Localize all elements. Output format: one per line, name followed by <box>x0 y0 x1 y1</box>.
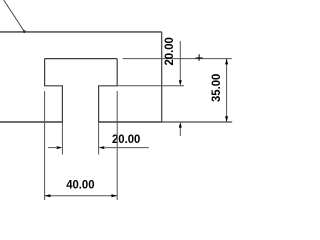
svg-text:20.00: 20.00 <box>112 133 141 146</box>
T-slot top edge <box>45 58 118 60</box>
T-slot right side <box>99 59 118 122</box>
point marker (cross) <box>196 54 203 61</box>
extension line at slot shoulder level <box>117 85 184 87</box>
wire: part right face <box>161 32 163 122</box>
extension line at slot top level <box>123 58 232 60</box>
wire: part top face <box>0 31 162 33</box>
T-slot left side <box>45 59 63 122</box>
extension line at part bottom level <box>162 121 233 123</box>
leader dot <box>23 30 26 33</box>
wire: part bottom face left of slot <box>0 121 62 123</box>
dimension 35.00 (far right vertical) <box>210 59 228 122</box>
svg-text:20.00: 20.00 <box>163 37 176 66</box>
svg-text:35.00: 35.00 <box>210 73 223 102</box>
dimension 40.00 (slot full width, bottom) <box>45 91 118 200</box>
leader line (diagonal) <box>4 0 25 32</box>
wire: part bottom face right of slot <box>99 121 162 123</box>
dimension 20.00 (right vertical) <box>163 37 182 136</box>
svg-text:40.00: 40.00 <box>66 179 95 192</box>
dimension 20.00 (slot opening width) <box>48 122 149 155</box>
